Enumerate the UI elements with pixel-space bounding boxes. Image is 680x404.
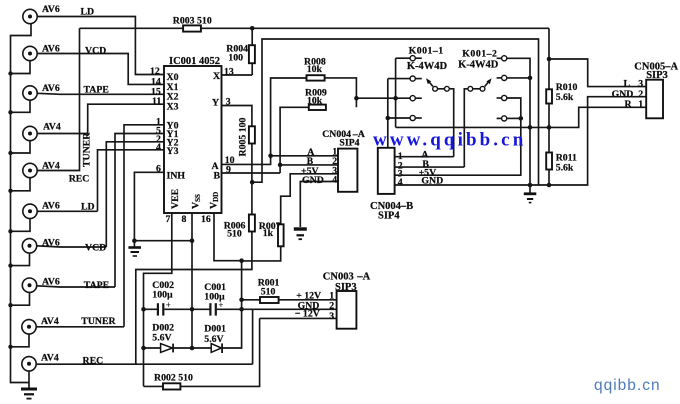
contact 4	[387, 117, 411, 119]
svg-text:www.qqibb.cn: www.qqibb.cn	[373, 129, 526, 150]
wire CN004-B pin4 GND rail	[395, 97, 647, 185]
connector CN004-B SIP4	[370, 148, 443, 222]
resistor R010	[546, 82, 577, 104]
contact 1	[396, 57, 411, 59]
svg-text:L: L	[624, 78, 631, 89]
ground below CN004-A	[294, 229, 307, 239]
wire R007 bottom to VDD	[242, 246, 281, 261]
connector AV6 VCD upper	[8, 44, 60, 76]
connector AV6 VCD lower	[8, 238, 60, 268]
svg-text:D001: D001	[204, 324, 226, 335]
resistor R006	[224, 215, 255, 240]
svg-text:R002 510: R002 510	[154, 373, 193, 384]
svg-text:SIP4: SIP4	[378, 210, 400, 221]
IC001 4052	[164, 56, 222, 213]
wire L node to CN005 pin3	[549, 59, 646, 87]
svg-text:+: +	[166, 300, 171, 310]
contact 2	[388, 78, 410, 80]
node GND bus tap	[250, 180, 255, 185]
connector AV6 LD lower	[8, 201, 60, 234]
svg-text:100µ: 100µ	[152, 290, 173, 301]
capacitor C002	[144, 280, 193, 316]
resistor R007	[259, 221, 284, 247]
svg-text:qqibb.cn: qqibb.cn	[594, 377, 661, 394]
resistor R005	[238, 117, 255, 156]
wire TAPE upper to X2 pin15	[37, 93, 164, 94]
wire INH pin6 to ground	[134, 172, 164, 240]
svg-text:R005 100: R005 100	[238, 117, 249, 156]
switch K001-2 K-4W4D	[458, 48, 532, 185]
svg-text:5.6V: 5.6V	[152, 333, 171, 344]
VEE rail pin7	[144, 213, 172, 386]
R line to CN005 pin1	[396, 126, 549, 128]
connector AV4 REC upper	[8, 161, 60, 194]
switch K001-1 K-4W4D	[386, 45, 454, 156]
connector CN005-A SIP3	[612, 61, 679, 118]
svg-text:LD: LD	[81, 202, 95, 213]
svg-text:VCD: VCD	[85, 243, 106, 254]
svg-text:SIP3: SIP3	[646, 70, 668, 81]
svg-text:B: B	[214, 171, 221, 182]
GND bus over top (T3)	[252, 39, 538, 185]
rail A contacts 1,3	[395, 58, 397, 127]
L node rail with R010/R011	[547, 57, 552, 62]
connector AV6 LD upper	[23, 4, 60, 24]
wire CN004-B pin1 A	[395, 156, 454, 158]
wire Y3 pin4 to LD lower	[98, 150, 165, 212]
resistor R001	[242, 277, 337, 303]
resistor R004	[226, 28, 255, 75]
connector CN004-A SIP4	[301, 129, 365, 192]
rail B contacts 2,4	[387, 79, 389, 148]
wire ground to Vss pin8	[134, 240, 192, 242]
svg-text:+: +	[218, 300, 223, 310]
resistor R003	[173, 15, 212, 31]
svg-text:5.6k: 5.6k	[556, 163, 574, 174]
wire Y1 pin5 to TAPE lower	[115, 134, 164, 288]
svg-text:8: 8	[182, 214, 187, 225]
svg-text:SIP4: SIP4	[339, 137, 359, 148]
wire Y0 pin1 to TUNER lower	[124, 125, 164, 327]
resistor R009	[280, 88, 327, 173]
wire VCD upper to X1 pin14	[37, 54, 164, 85]
ground bottom-left	[21, 371, 37, 399]
svg-text:5.6k: 5.6k	[556, 92, 574, 103]
svg-text:K001–2: K001–2	[462, 48, 497, 59]
wire -12V to CN003 pin3	[260, 317, 337, 319]
svg-text:4: 4	[398, 177, 403, 188]
svg-text:R003 510: R003 510	[173, 15, 212, 26]
wire R006 bottom to REC rail	[136, 232, 252, 365]
contact 3	[410, 96, 415, 101]
svg-text:13: 13	[224, 67, 234, 78]
svg-text:TUNER: TUNER	[82, 132, 93, 167]
svg-text:X: X	[213, 71, 220, 82]
wiper K001-2	[468, 86, 473, 91]
svg-text:VEE: VEE	[170, 188, 181, 209]
svg-text:VCD: VCD	[85, 46, 106, 57]
svg-text:CN003: CN003	[323, 271, 354, 282]
svg-text:7: 7	[166, 214, 171, 225]
svg-text:IC001 4052: IC001 4052	[169, 56, 220, 67]
svg-text:AV6: AV6	[42, 4, 60, 15]
node R008/R009 to switch	[354, 96, 359, 101]
wire Y pin3 to R005	[222, 106, 252, 127]
diode D002	[144, 323, 195, 353]
svg-text:Y3: Y3	[167, 146, 179, 157]
svg-text:K001–1: K001–1	[409, 45, 444, 56]
svg-text:LD: LD	[81, 7, 95, 18]
svg-text:16: 16	[201, 214, 211, 225]
svg-text:4: 4	[332, 174, 337, 185]
ground near IC	[128, 238, 141, 256]
contact 3	[497, 97, 502, 99]
node X rail / R004 junction	[250, 26, 255, 31]
svg-text:5.6V: 5.6V	[204, 334, 223, 345]
X-output top rail (T2)	[80, 27, 184, 29]
svg-text:K-4W4D: K-4W4D	[458, 59, 499, 70]
resistor R008	[271, 57, 357, 156]
resistor R002	[144, 318, 260, 389]
wire CN004-B pin2 B	[395, 166, 465, 168]
svg-text:GND: GND	[302, 175, 324, 186]
connector AV4 REC lower	[22, 352, 59, 371]
svg-text:K-4W4D: K-4W4D	[407, 61, 448, 72]
svg-text:11: 11	[152, 96, 161, 107]
VDD rail pin16	[214, 213, 242, 348]
wire REC lower to +12V node	[36, 363, 252, 365]
wire REC upper up to X-output rail	[37, 28, 79, 170]
svg-text:TAPE: TAPE	[84, 84, 110, 95]
wire Y2 pin2 to VCD lower	[106, 142, 164, 247]
connector CN003-A SIP3	[295, 271, 371, 328]
ground right	[524, 185, 537, 203]
left ground shield rail	[11, 24, 32, 383]
contact 2	[497, 77, 502, 79]
svg-text:AV4: AV4	[43, 122, 61, 133]
svg-text:1: 1	[638, 99, 643, 110]
wire B pin9	[222, 172, 281, 174]
svg-text:AV6: AV6	[42, 83, 60, 94]
svg-text:TUNER: TUNER	[81, 316, 116, 327]
svg-text:10k: 10k	[307, 64, 323, 75]
connector AV4 TUNER lower	[8, 316, 59, 349]
diode D001	[192, 324, 226, 354]
wire GND CN004-A pin4	[300, 182, 338, 228]
wire R005 to R006	[251, 144, 253, 215]
svg-text:3: 3	[638, 78, 643, 89]
svg-text:AV4: AV4	[41, 352, 59, 363]
wire LD upper to X0 pin12	[37, 17, 164, 75]
svg-text:X3: X3	[167, 102, 179, 113]
svg-text:1k: 1k	[263, 228, 274, 239]
svg-text:100: 100	[228, 52, 243, 63]
svg-text:INH: INH	[167, 171, 186, 182]
contact 4	[497, 117, 502, 119]
wire TUNER upper to X3 pin11	[37, 104, 164, 133]
svg-text:REC: REC	[83, 355, 104, 366]
wire X pin13	[222, 74, 253, 76]
svg-text:SIP3: SIP3	[335, 282, 357, 293]
wire A pin10 to CN004-A pin1	[222, 156, 271, 165]
svg-text:AV6: AV6	[42, 201, 60, 212]
svg-text:AV4: AV4	[41, 316, 59, 327]
svg-text:3: 3	[329, 311, 334, 322]
svg-text:R: R	[625, 99, 633, 110]
svg-text:Y: Y	[212, 98, 219, 109]
contact 1	[497, 57, 502, 59]
svg-text:510: 510	[227, 229, 242, 240]
svg-text:4: 4	[156, 142, 161, 153]
svg-text:TAPE: TAPE	[84, 280, 110, 291]
svg-text:–A: –A	[356, 271, 370, 282]
svg-text:REC: REC	[69, 173, 90, 184]
wiper K001-1	[433, 86, 438, 91]
wire CN004-B pin3 +5V	[395, 118, 521, 175]
connector AV6 TAPE lower	[8, 276, 60, 307]
wire cap row to CN003 GND / REC drop	[242, 309, 253, 364]
wire B to CN004-A pin2	[280, 164, 338, 166]
IC pin numbers	[150, 66, 235, 225]
resistor R011	[546, 153, 577, 174]
capacitor C001	[192, 282, 242, 316]
Vss rail pin8 down	[191, 213, 193, 348]
connector AV6 TAPE upper	[8, 83, 60, 115]
wire +5V to CN004-A pin3	[281, 174, 338, 225]
svg-text:− 12V: − 12V	[295, 309, 320, 320]
svg-text:2: 2	[329, 300, 334, 311]
connector AV4 TUNER upper	[8, 122, 61, 156]
svg-text:10k: 10k	[307, 95, 323, 106]
